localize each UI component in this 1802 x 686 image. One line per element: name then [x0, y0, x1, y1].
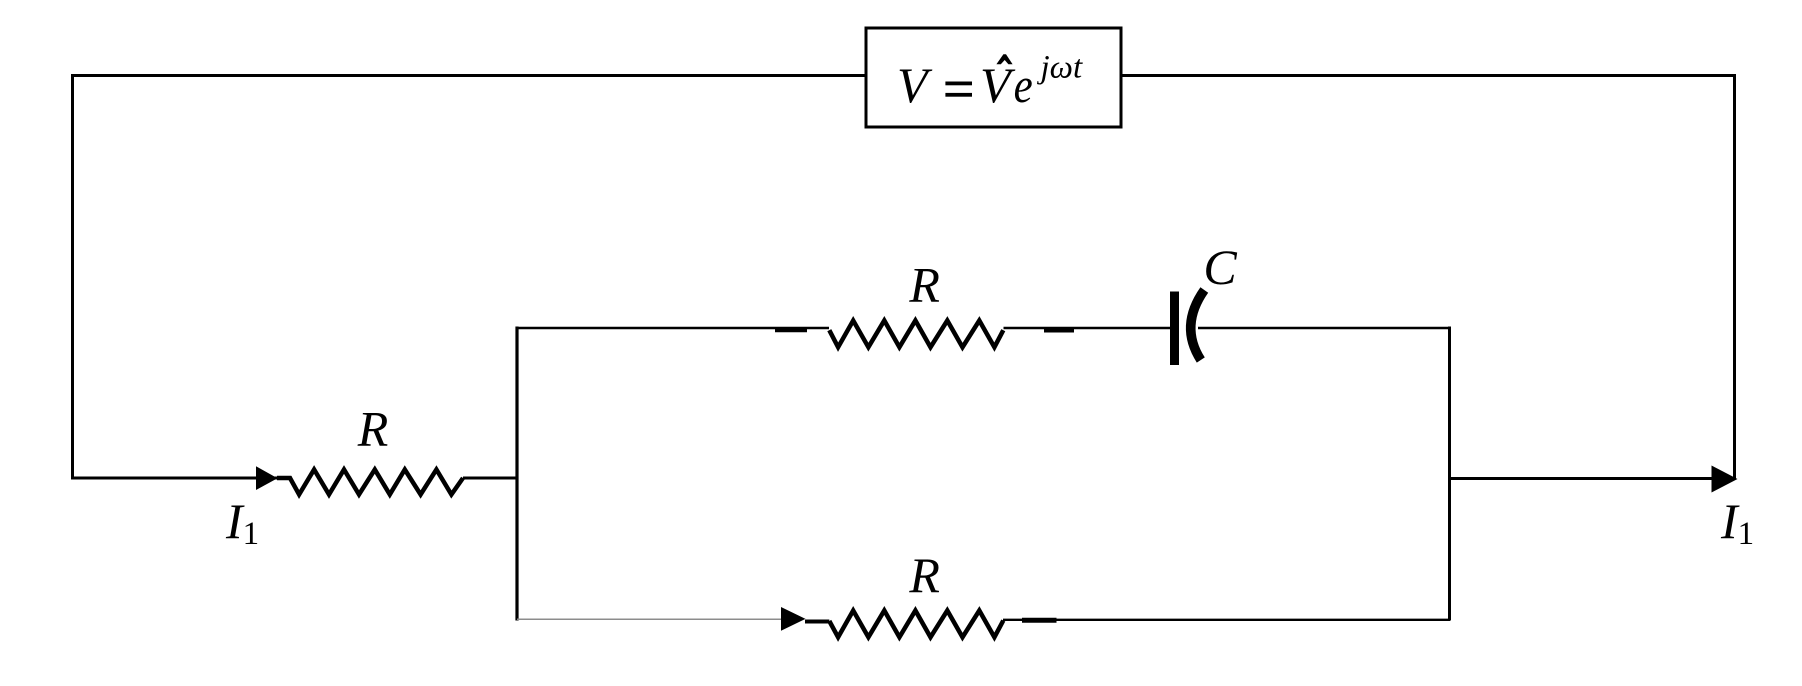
- svg-text:R: R: [357, 401, 389, 457]
- svg-text:I1: I1: [225, 493, 259, 552]
- svg-text:I1: I1: [1720, 493, 1754, 552]
- svg-text:R: R: [908, 547, 940, 603]
- svg-text:C: C: [1203, 239, 1237, 295]
- svg-text:R: R: [908, 256, 940, 312]
- svg-text:e: e: [1014, 58, 1033, 114]
- svg-text:jωt: jωt: [1037, 50, 1083, 86]
